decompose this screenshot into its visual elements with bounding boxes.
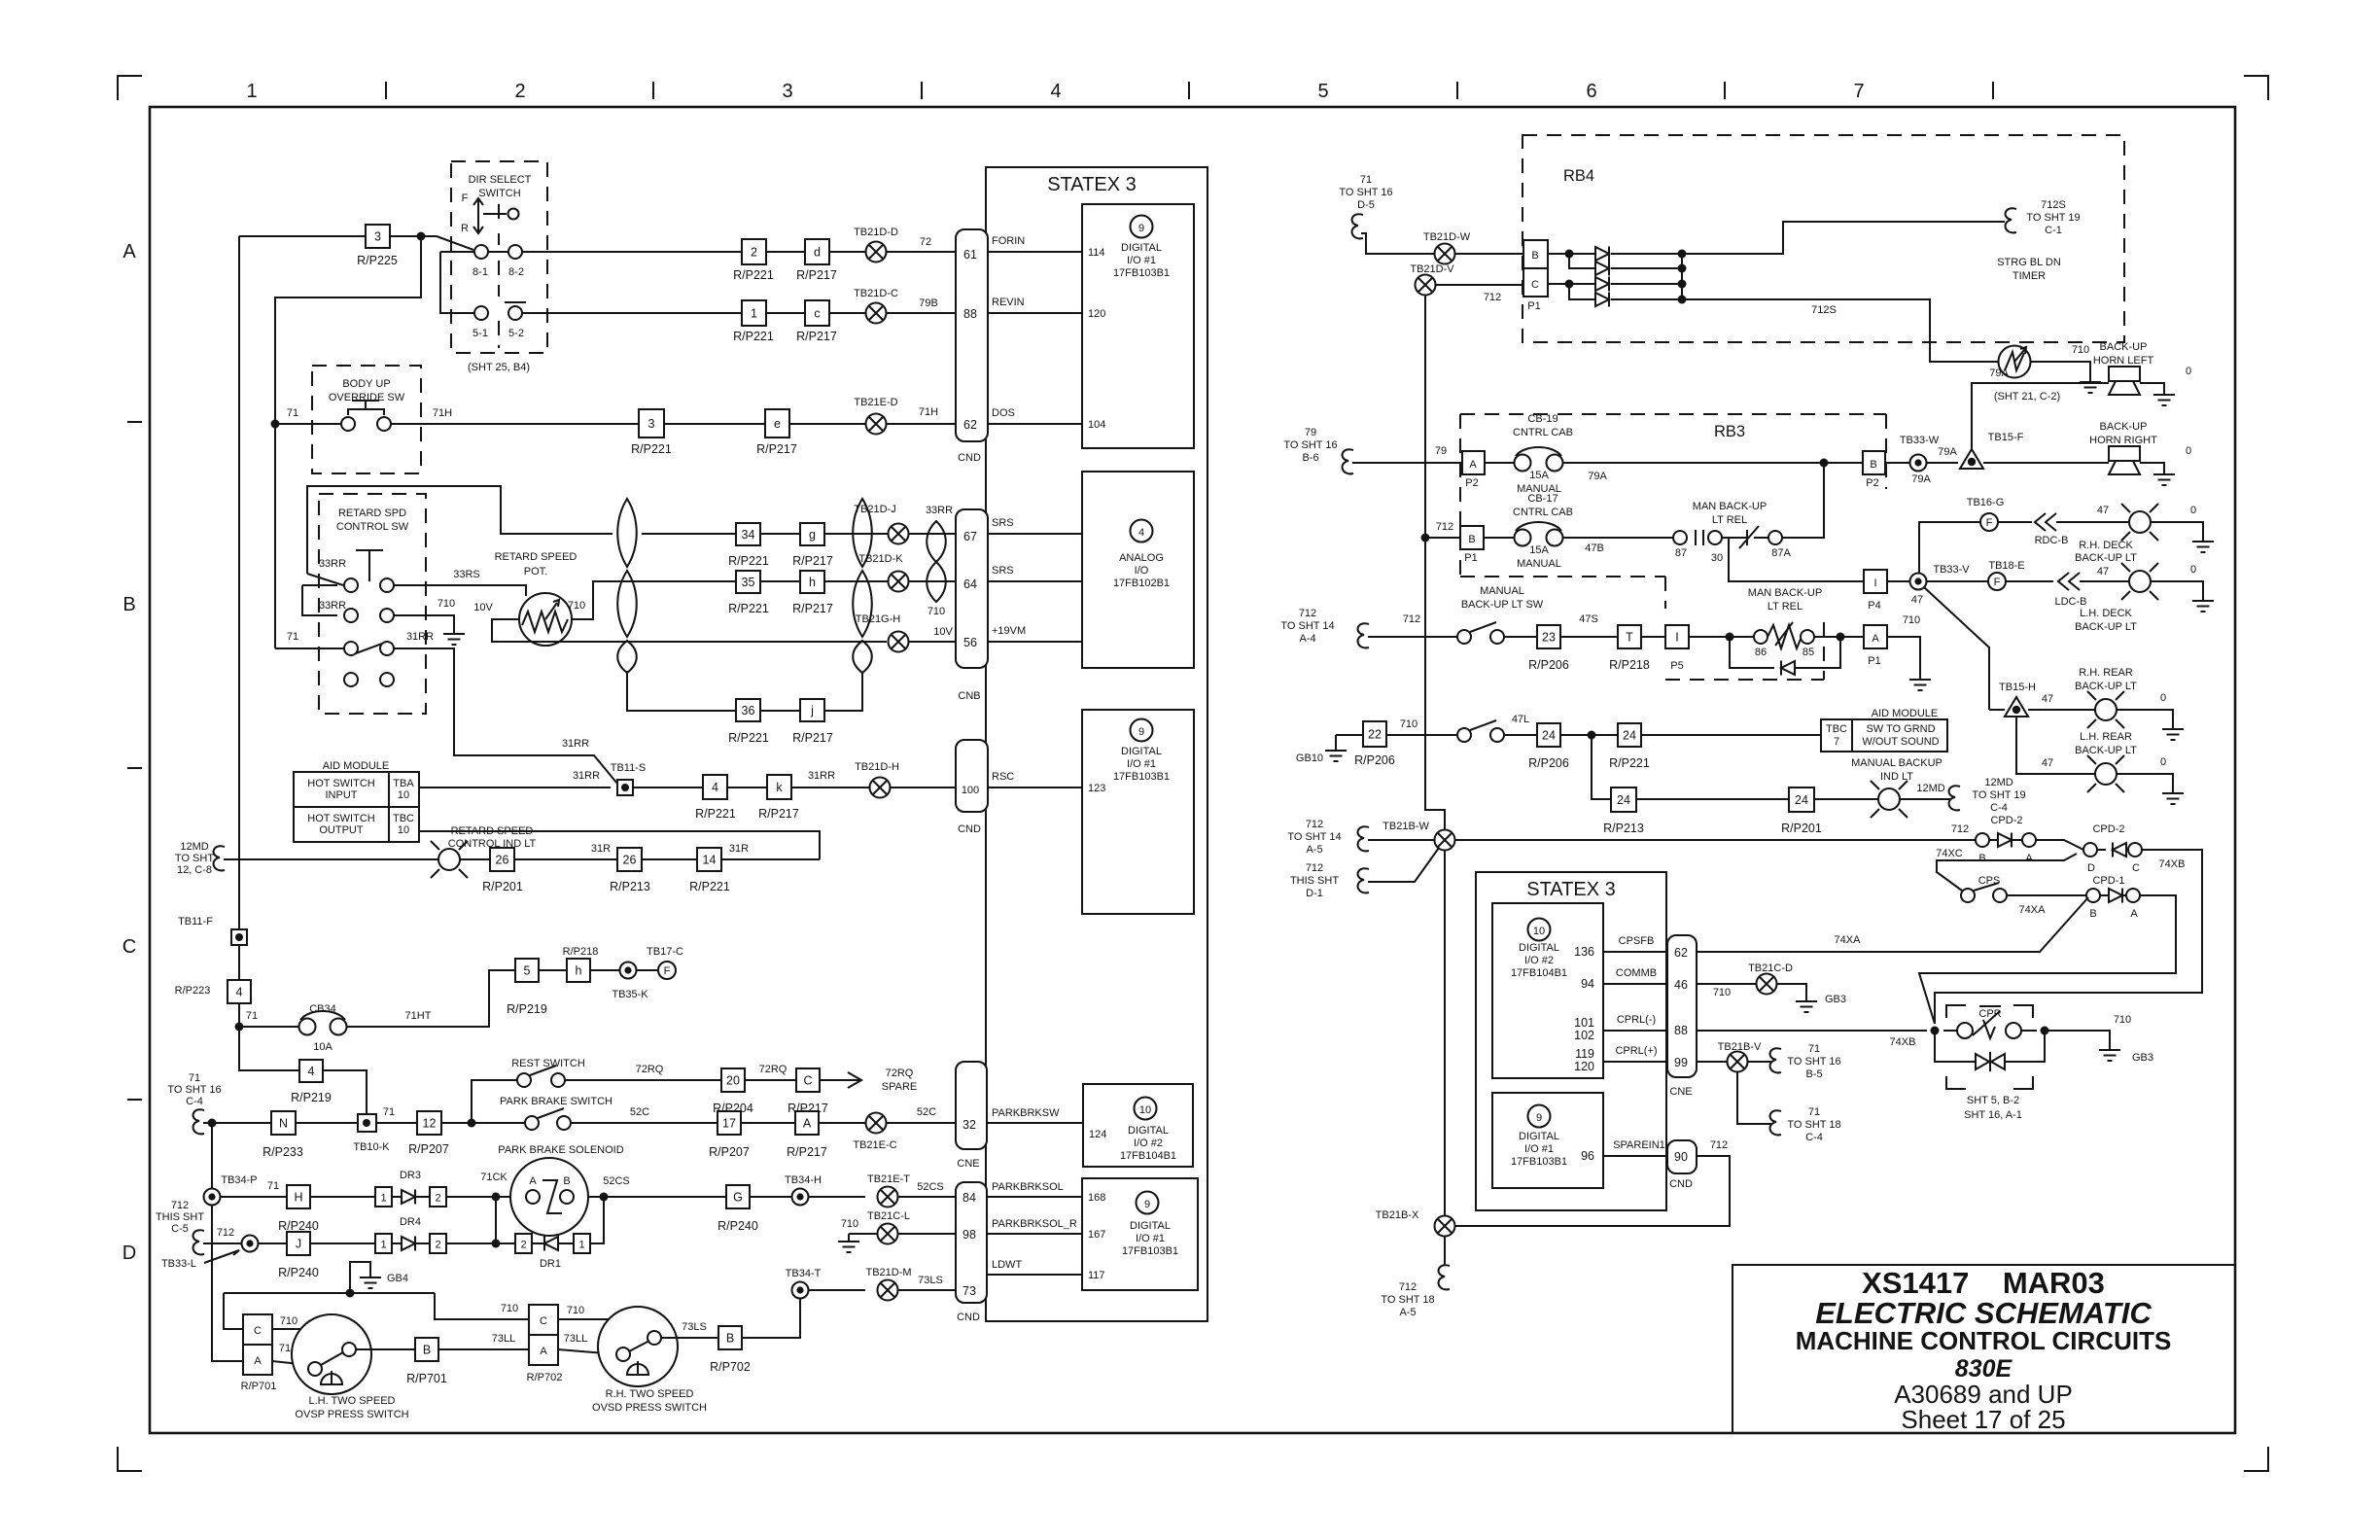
- svg-text:POT.: POT.: [524, 566, 547, 577]
- wire SRS pin67: [988, 533, 1082, 535]
- svg-text:47: 47: [2097, 566, 2109, 577]
- svg-text:710: 710: [1400, 718, 1417, 730]
- svg-text:712: 712: [1436, 521, 1453, 533]
- svg-text:62: 62: [1674, 946, 1688, 960]
- svg-text:P1: P1: [1464, 552, 1477, 564]
- svg-text:H: H: [294, 1191, 302, 1205]
- svg-text:R/P221: R/P221: [728, 731, 769, 745]
- svg-text:119: 119: [1575, 1047, 1594, 1061]
- wire net 710 / 47L: [1386, 734, 1457, 736]
- connector R/P213 pin 24: [1611, 787, 1636, 812]
- connector R/P204 pin 20: [721, 1068, 745, 1092]
- svg-text:64: 64: [963, 577, 977, 591]
- svg-text:710: 710: [1903, 614, 1920, 626]
- wire SRS pin64: [988, 580, 1082, 582]
- svg-text:R.H. TWO SPEED: R.H. TWO SPEED: [606, 1388, 694, 1400]
- wire CPRL(-) 101/102-88: [1603, 1030, 1667, 1032]
- svg-text:72: 72: [920, 236, 931, 248]
- suppressor across CPR coil: [1935, 1031, 1976, 1062]
- io module DIGITAL I/O #1 (bottom): [1082, 1178, 1198, 1290]
- svg-text:712: 712: [171, 1200, 189, 1211]
- svg-text:CNE: CNE: [1669, 1086, 1692, 1098]
- svg-text:TO SHT: TO SHT: [175, 853, 214, 864]
- svg-text:BACK-UP: BACK-UP: [2100, 341, 2148, 353]
- diode across relay coil: [1730, 637, 1774, 668]
- svg-text:117: 117: [1088, 1270, 1105, 1281]
- wire PARKBRKSW pin124: [987, 1122, 1083, 1124]
- svg-text:MAN BACK-UP: MAN BACK-UP: [1748, 587, 1822, 599]
- wire SPAREIN1 96-90: [1603, 1155, 1667, 1157]
- svg-text:26: 26: [496, 854, 509, 867]
- svg-text:L.H. DECK: L.H. DECK: [2080, 608, 2132, 619]
- junction node 47S relay: [1726, 633, 1734, 642]
- svg-text:CND: CND: [958, 823, 981, 835]
- svg-text:R/P221: R/P221: [733, 330, 774, 343]
- svg-text:C: C: [1531, 279, 1539, 291]
- STATEX 3 cabinet (right): [1476, 872, 1666, 1210]
- svg-text:B: B: [1978, 853, 1985, 864]
- svg-text:D-1: D-1: [1306, 888, 1323, 899]
- svg-text:MAN BACK-UP: MAN BACK-UP: [1693, 501, 1767, 512]
- wire 30 down to P4: [1729, 538, 1864, 581]
- terminal TB35-K: [620, 962, 637, 979]
- terminal TB21D-H: [870, 778, 891, 798]
- svg-text:79: 79: [1305, 427, 1316, 438]
- svg-text:3: 3: [782, 81, 792, 102]
- svg-text:j: j: [810, 704, 814, 717]
- svg-text:DIGITAL: DIGITAL: [1519, 1131, 1559, 1142]
- svg-text:D: D: [122, 1242, 136, 1264]
- svg-text:R/P217: R/P217: [796, 268, 837, 282]
- svg-text:710: 710: [1713, 987, 1731, 998]
- connector R/P213 pin 26: [617, 848, 642, 871]
- terminal TB10-K: [358, 1114, 376, 1132]
- svg-text:STATEX 3: STATEX 3: [1526, 879, 1616, 900]
- svg-text:R/P225: R/P225: [357, 254, 398, 267]
- svg-text:C: C: [803, 1074, 812, 1088]
- svg-text:R/P221: R/P221: [631, 442, 672, 456]
- svg-text:SRS: SRS: [992, 517, 1014, 529]
- svg-text:47B: 47B: [1585, 542, 1604, 554]
- svg-text:1: 1: [751, 307, 757, 321]
- svg-text:P2: P2: [1465, 477, 1478, 489]
- svg-text:712S: 712S: [2041, 199, 2066, 211]
- svg-text:XS1417 MAR03: XS1417 MAR03: [1862, 1266, 2105, 1300]
- svg-text:I: I: [1873, 577, 1876, 589]
- svg-text:A: A: [1872, 633, 1879, 645]
- wire 71 down to two-speed: [212, 1123, 243, 1361]
- svg-text:h: h: [809, 576, 816, 589]
- svg-text:R/P702: R/P702: [710, 1360, 751, 1374]
- svg-text:52CS: 52CS: [917, 1181, 944, 1193]
- svg-text:IND LT: IND LT: [1880, 771, 1913, 783]
- wire net 31RR from AID TBA: [419, 787, 611, 788]
- svg-text:HORN LEFT: HORN LEFT: [2093, 355, 2154, 367]
- connector R/P701 pin B: [415, 1338, 438, 1361]
- connector R/P217 pin A: [795, 1111, 819, 1135]
- svg-text:(SHT 25, B4): (SHT 25, B4): [468, 362, 530, 373]
- connector R/P221 pin 2: [742, 239, 766, 264]
- connector R/P206 pin 23: [1537, 625, 1560, 648]
- diode RB4-2: [1595, 262, 1609, 276]
- svg-text:72RQ: 72RQ: [759, 1064, 787, 1075]
- svg-text:47: 47: [1911, 594, 1923, 606]
- wire net CPRL to CPR: [1697, 1030, 1927, 1032]
- svg-text:87A: 87A: [1771, 547, 1791, 559]
- wire net 710 to ground: [1887, 637, 1920, 672]
- connector R/P221 pin 34: [736, 523, 760, 545]
- svg-text:R/P207: R/P207: [408, 1142, 449, 1156]
- svg-text:4: 4: [236, 986, 243, 999]
- svg-text:LDC-B: LDC-B: [2054, 596, 2086, 608]
- svg-text:GB10: GB10: [1296, 752, 1323, 764]
- wire 712 to C pin: [1436, 284, 1523, 286]
- svg-text:710: 710: [501, 1303, 518, 1314]
- svg-text:4: 4: [1050, 81, 1061, 102]
- svg-text:TB34-P: TB34-P: [221, 1174, 257, 1186]
- junction node 712 RB3: [1421, 534, 1430, 542]
- svg-text:52C: 52C: [917, 1106, 936, 1118]
- svg-text:R/P221: R/P221: [728, 602, 769, 615]
- connector R/P221 pin 4: [703, 775, 727, 799]
- junction node 71 top: [417, 232, 426, 241]
- connector R/P217 pin c: [805, 300, 829, 326]
- wire net 74XA long: [1697, 897, 2088, 952]
- svg-text:710: 710: [567, 1305, 584, 1316]
- svg-text:+19VM: +19VM: [992, 625, 1026, 637]
- connector R/P240 pin J: [287, 1232, 310, 1255]
- svg-text:73LL: 73LL: [492, 1333, 515, 1345]
- terminal TB21D-C: [866, 303, 887, 324]
- svg-text:79: 79: [1435, 445, 1447, 457]
- svg-text:71: 71: [287, 631, 298, 643]
- svg-text:167: 167: [1088, 1229, 1105, 1241]
- relay contact (NC): [1722, 537, 1746, 539]
- svg-text:R.H. REAR: R.H. REAR: [2079, 667, 2133, 679]
- connector R/P221 pin 3 (71H): [639, 409, 664, 437]
- svg-text:124: 124: [1089, 1129, 1106, 1140]
- wire RSC pin123: [988, 787, 1082, 788]
- svg-text:CNB: CNB: [958, 690, 980, 702]
- svg-text:24: 24: [1623, 729, 1636, 743]
- svg-text:TB34-T: TB34-T: [786, 1268, 822, 1279]
- svg-text:52CS: 52CS: [603, 1175, 630, 1187]
- svg-text:31RR: 31RR: [573, 770, 600, 782]
- svg-text:71: 71: [383, 1106, 395, 1118]
- svg-text:17FB103B1: 17FB103B1: [1113, 771, 1170, 783]
- svg-text:10A: 10A: [313, 1041, 332, 1053]
- svg-text:TB21G-H: TB21G-H: [856, 613, 901, 625]
- svg-text:F: F: [462, 192, 469, 204]
- svg-text:RETARD SPD: RETARD SPD: [338, 507, 406, 519]
- wire net 79: [1352, 462, 1462, 464]
- svg-text:26: 26: [623, 854, 637, 867]
- svg-text:DIGITAL: DIGITAL: [1121, 746, 1162, 757]
- wire 71 to TB21D-W: [1361, 233, 1434, 254]
- svg-text:17FB104B1: 17FB104B1: [1120, 1150, 1176, 1162]
- svg-text:79A: 79A: [1938, 446, 1957, 458]
- CN connector CNE (32): [956, 1062, 987, 1149]
- svg-text:TB17-C: TB17-C: [647, 946, 683, 958]
- svg-text:0: 0: [2186, 445, 2191, 457]
- svg-text:MANUAL: MANUAL: [1517, 558, 1561, 570]
- svg-text:THIS SHT: THIS SHT: [156, 1211, 204, 1223]
- wire 87A riser to 79A: [1782, 463, 1824, 538]
- svg-text:2: 2: [514, 81, 525, 102]
- svg-text:SHT 5, B-2: SHT 5, B-2: [1967, 1095, 2019, 1106]
- svg-text:HORN RIGHT: HORN RIGHT: [2089, 435, 2157, 446]
- svg-text:46: 46: [1674, 978, 1688, 992]
- svg-text:P1: P1: [1527, 300, 1540, 312]
- svg-text:712: 712: [1299, 608, 1316, 619]
- svg-text:GB4: GB4: [387, 1273, 408, 1284]
- svg-text:5-2: 5-2: [508, 328, 524, 339]
- wire net 71HT: [346, 970, 515, 1027]
- svg-text:OUTPUT: OUTPUT: [319, 824, 364, 836]
- RB4 diode array: [1548, 253, 1595, 255]
- svg-text:W/OUT SOUND: W/OUT SOUND: [1862, 736, 1939, 748]
- svg-text:23: 23: [1542, 631, 1556, 645]
- svg-text:P5: P5: [1670, 660, 1683, 672]
- svg-text:BACK-UP LT: BACK-UP LT: [2075, 681, 2137, 692]
- chevrons RDC-B: [2035, 513, 2056, 531]
- connector R/P233 pin N: [271, 1111, 296, 1135]
- wire net 73LS: [661, 1337, 718, 1339]
- wire CPSFB 136-62: [1603, 951, 1667, 953]
- svg-text:TBA: TBA: [393, 778, 414, 789]
- connector pin 1 (DR1): [574, 1234, 590, 1253]
- svg-text:12, C-8: 12, C-8: [177, 864, 212, 876]
- svg-text:47L: 47L: [1512, 714, 1529, 725]
- svg-text:DIGITAL: DIGITAL: [1130, 1220, 1171, 1232]
- connector R/P240 pin H: [287, 1185, 310, 1208]
- svg-text:710: 710: [2114, 1014, 2131, 1026]
- svg-text:BACK-UP: BACK-UP: [2100, 421, 2148, 433]
- connector P1 pin B: [1460, 526, 1484, 549]
- svg-text:SPARE: SPARE: [882, 1081, 917, 1093]
- svg-text:R/P221: R/P221: [689, 880, 730, 893]
- wire TBC output loop: [419, 831, 820, 859]
- svg-text:C-4: C-4: [186, 1096, 203, 1107]
- wire TB15-H down: [2016, 717, 2095, 774]
- diode RB4-1: [1595, 247, 1609, 262]
- svg-text:17FB103B1: 17FB103B1: [1511, 1156, 1567, 1168]
- svg-text:DR1: DR1: [540, 1258, 561, 1270]
- connector P4 pin I: [1864, 570, 1887, 593]
- svg-text:DIR SELECT: DIR SELECT: [469, 174, 532, 186]
- lamp L.H. DECK BACK-UP LT: [2121, 563, 2158, 600]
- svg-text:31R: 31R: [591, 843, 611, 855]
- svg-text:4: 4: [308, 1065, 315, 1078]
- svg-text:SPAREIN1: SPAREIN1: [1613, 1139, 1665, 1151]
- svg-text:B: B: [122, 594, 135, 615]
- svg-text:79A: 79A: [1989, 367, 2009, 379]
- svg-text:33RS: 33RS: [453, 569, 480, 580]
- svg-text:TB21D-D: TB21D-D: [854, 227, 898, 238]
- retard switch plunger: [368, 550, 370, 581]
- svg-text:PARK BRAKE SOLENOID: PARK BRAKE SOLENOID: [498, 1144, 623, 1156]
- svg-text:A: A: [2130, 908, 2138, 920]
- arrow 72RQ spare: [848, 1072, 861, 1088]
- svg-text:2: 2: [435, 1240, 440, 1251]
- svg-text:9: 9: [1536, 1112, 1542, 1124]
- svg-text:CB-19: CB-19: [1527, 413, 1557, 425]
- svg-text:712: 712: [1710, 1139, 1728, 1151]
- terminal TB21D-K: [889, 572, 909, 592]
- connector R/P702 C/A: [529, 1305, 558, 1335]
- svg-text:N: N: [279, 1117, 288, 1131]
- relay box RB3 outline: [1459, 414, 1461, 577]
- svg-text:I/O #2: I/O #2: [1524, 955, 1554, 966]
- svg-text:33RR: 33RR: [926, 505, 953, 516]
- svg-text:c: c: [814, 307, 820, 321]
- junction node 71 CB34: [235, 1023, 244, 1032]
- chevrons LDC-B: [2058, 573, 2080, 590]
- wire net 31RR: [394, 648, 617, 784]
- svg-text:R/P240: R/P240: [717, 1219, 758, 1233]
- svg-text:12MD: 12MD: [1984, 777, 2012, 788]
- svg-text:712: 712: [1306, 862, 1323, 874]
- wire TB21B-V to sht 18: [1737, 1072, 1772, 1124]
- wire +19VM pin56: [988, 641, 1082, 643]
- svg-text:A-5: A-5: [1306, 844, 1322, 856]
- pushbutton contacts: [341, 417, 355, 431]
- svg-text:84: 84: [962, 1191, 976, 1205]
- svg-text:0: 0: [2160, 692, 2166, 704]
- svg-text:79A: 79A: [1911, 473, 1931, 485]
- wire junction to body-up column: [275, 236, 421, 424]
- ground GB4: [346, 1289, 355, 1298]
- svg-text:TB35-K: TB35-K: [612, 989, 648, 1000]
- wire PARKBRKSOL pin168: [987, 1196, 1082, 1198]
- svg-text:32: 32: [962, 1118, 976, 1132]
- svg-text:DR3: DR3: [400, 1170, 421, 1181]
- svg-text:SWITCH: SWITCH: [478, 188, 520, 199]
- terminal TB21D-J: [889, 524, 909, 544]
- svg-text:GB3: GB3: [1825, 994, 1846, 1005]
- svg-text:BODY UP: BODY UP: [342, 378, 390, 390]
- svg-text:102: 102: [1574, 1029, 1594, 1042]
- wire 71 down to R/P219 4: [239, 1027, 299, 1070]
- svg-text:TO SHT 14: TO SHT 14: [1287, 831, 1341, 843]
- svg-text:INPUT: INPUT: [326, 789, 358, 801]
- wire row2 to 710 ground: [394, 615, 454, 626]
- svg-text:24: 24: [1617, 793, 1630, 807]
- svg-text:R/P701: R/P701: [406, 1372, 447, 1385]
- svg-text:71: 71: [189, 1072, 200, 1084]
- svg-text:710: 710: [2072, 344, 2089, 356]
- svg-text:R/P701: R/P701: [241, 1381, 277, 1392]
- svg-text:710: 710: [841, 1218, 858, 1230]
- svg-text:34: 34: [742, 528, 755, 542]
- svg-text:R/P233: R/P233: [262, 1145, 303, 1159]
- svg-text:101: 101: [1574, 1016, 1594, 1030]
- connector R/P217 pin h: [800, 571, 824, 593]
- svg-text:104: 104: [1088, 419, 1105, 431]
- svg-text:TO SHT 16: TO SHT 16: [1339, 187, 1392, 198]
- wire TB21D-V down feed: [1425, 296, 1445, 830]
- wire net 712 to CPD-2: [1455, 839, 1975, 841]
- svg-text:A: A: [122, 241, 136, 262]
- svg-text:PARK BRAKE SWITCH: PARK BRAKE SWITCH: [500, 1096, 612, 1107]
- svg-text:15A: 15A: [1529, 470, 1549, 481]
- svg-text:10: 10: [398, 824, 409, 836]
- svg-text:74XA: 74XA: [2019, 904, 2047, 916]
- connector R/P221 pin 24: [1618, 723, 1641, 747]
- svg-text:17FB103B1: 17FB103B1: [1113, 267, 1170, 279]
- svg-text:30: 30: [1711, 552, 1723, 564]
- L.H. two speed pressure switch: [272, 1328, 315, 1330]
- svg-text:CPD-1: CPD-1: [2092, 875, 2124, 887]
- svg-text:A-5: A-5: [1399, 1307, 1416, 1318]
- svg-text:17: 17: [722, 1117, 736, 1131]
- svg-text:2: 2: [520, 1240, 526, 1251]
- svg-text:12MD: 12MD: [1916, 783, 1944, 794]
- svg-text:MANUAL: MANUAL: [1480, 585, 1524, 597]
- wire net 72RQ: [565, 1079, 721, 1081]
- CN connector CND (84/98/73): [956, 1182, 987, 1303]
- svg-text:1: 1: [246, 81, 257, 102]
- wire net CPD-1 return: [1919, 895, 2176, 1024]
- svg-text:SHT 16, A-1: SHT 16, A-1: [1964, 1109, 2022, 1121]
- connector R/P218 pin h: [567, 959, 590, 982]
- svg-text:TB21D-C: TB21D-C: [854, 288, 898, 299]
- terminal TB21G-H: [889, 632, 909, 652]
- svg-text:G: G: [733, 1191, 743, 1205]
- svg-text:86: 86: [1755, 647, 1767, 658]
- svg-text:BACK-UP LT: BACK-UP LT: [2075, 552, 2137, 564]
- connector P1 pin A: [1840, 636, 1864, 638]
- svg-text:22: 22: [1368, 728, 1382, 742]
- connector R/P217 pin e: [765, 409, 789, 437]
- connector R/P207 pin 17: [717, 1111, 741, 1135]
- switch DIR SELECT SWITCH box: [451, 161, 547, 353]
- svg-text:I/O: I/O: [1135, 565, 1149, 577]
- switch contact 8-1 / 8-2: [437, 236, 473, 250]
- svg-text:3: 3: [648, 417, 655, 431]
- svg-text:5: 5: [1317, 81, 1328, 102]
- wire FORIN pin114: [988, 251, 1082, 253]
- relay CPR dashed bracket: [1946, 1005, 1966, 1018]
- svg-text:71: 71: [1808, 1043, 1820, 1055]
- diode DR1: [544, 1237, 558, 1251]
- terminal TB21E-C: [866, 1113, 887, 1134]
- svg-text:OVERRIDE SW: OVERRIDE SW: [329, 392, 405, 403]
- svg-text:47: 47: [2042, 757, 2053, 769]
- svg-text:AID MODULE: AID MODULE: [323, 760, 389, 772]
- svg-text:DR4: DR4: [400, 1216, 421, 1228]
- svg-text:47: 47: [2097, 505, 2109, 516]
- svg-text:136: 136: [1574, 945, 1594, 959]
- connector R/P223 pin 4 box: [227, 980, 251, 1003]
- wire GB4 rail: [224, 1292, 435, 1294]
- svg-text:BACK-UP LT SW: BACK-UP LT SW: [1461, 599, 1544, 611]
- svg-text:R/P206: R/P206: [1528, 756, 1569, 770]
- svg-text:712: 712: [1403, 613, 1420, 625]
- svg-text:TB21D-V: TB21D-V: [1410, 263, 1454, 275]
- connector pin 2 (DR3): [430, 1187, 446, 1207]
- svg-text:k: k: [776, 781, 783, 794]
- junction node 74XB/CPR: [1931, 1027, 1940, 1035]
- svg-text:COMMB: COMMB: [1616, 967, 1657, 979]
- svg-text:62: 62: [963, 418, 977, 432]
- svg-text:67: 67: [963, 530, 977, 543]
- connector P1 pins B/C: [1523, 240, 1548, 268]
- svg-text:BACK-UP LT: BACK-UP LT: [2075, 745, 2137, 756]
- svg-text:74XB: 74XB: [2159, 858, 2186, 870]
- svg-text:36: 36: [742, 704, 755, 717]
- svg-text:0: 0: [2186, 366, 2191, 377]
